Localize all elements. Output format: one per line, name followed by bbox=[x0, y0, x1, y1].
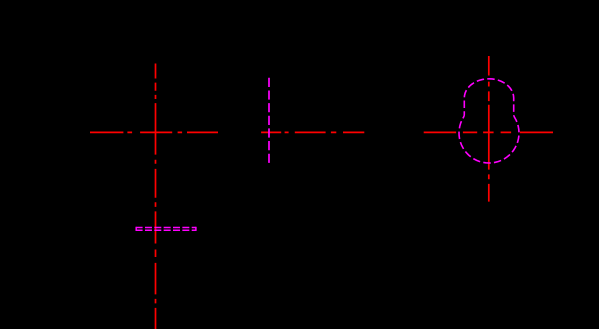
hidden line L1 (vertical dashed edge, middle feature) bbox=[268, 78, 270, 163]
centerline H1 (horizontal center axis, left feature) bbox=[90, 131, 218, 133]
centerline H2 (horizontal center axis, middle feature) bbox=[261, 131, 364, 133]
centerline H3 (horizontal center axis, right feature) bbox=[424, 131, 553, 133]
hidden ellipse E1 (flat dashed ellipse, bottom feature) bbox=[136, 227, 197, 231]
centerline V1 (vertical center axis, left feature) bbox=[155, 64, 157, 329]
hidden outline B1 (dashed bell / keyhole profile, right feature) bbox=[459, 79, 519, 163]
centerline V3 (vertical center axis, right feature) bbox=[488, 56, 490, 202]
